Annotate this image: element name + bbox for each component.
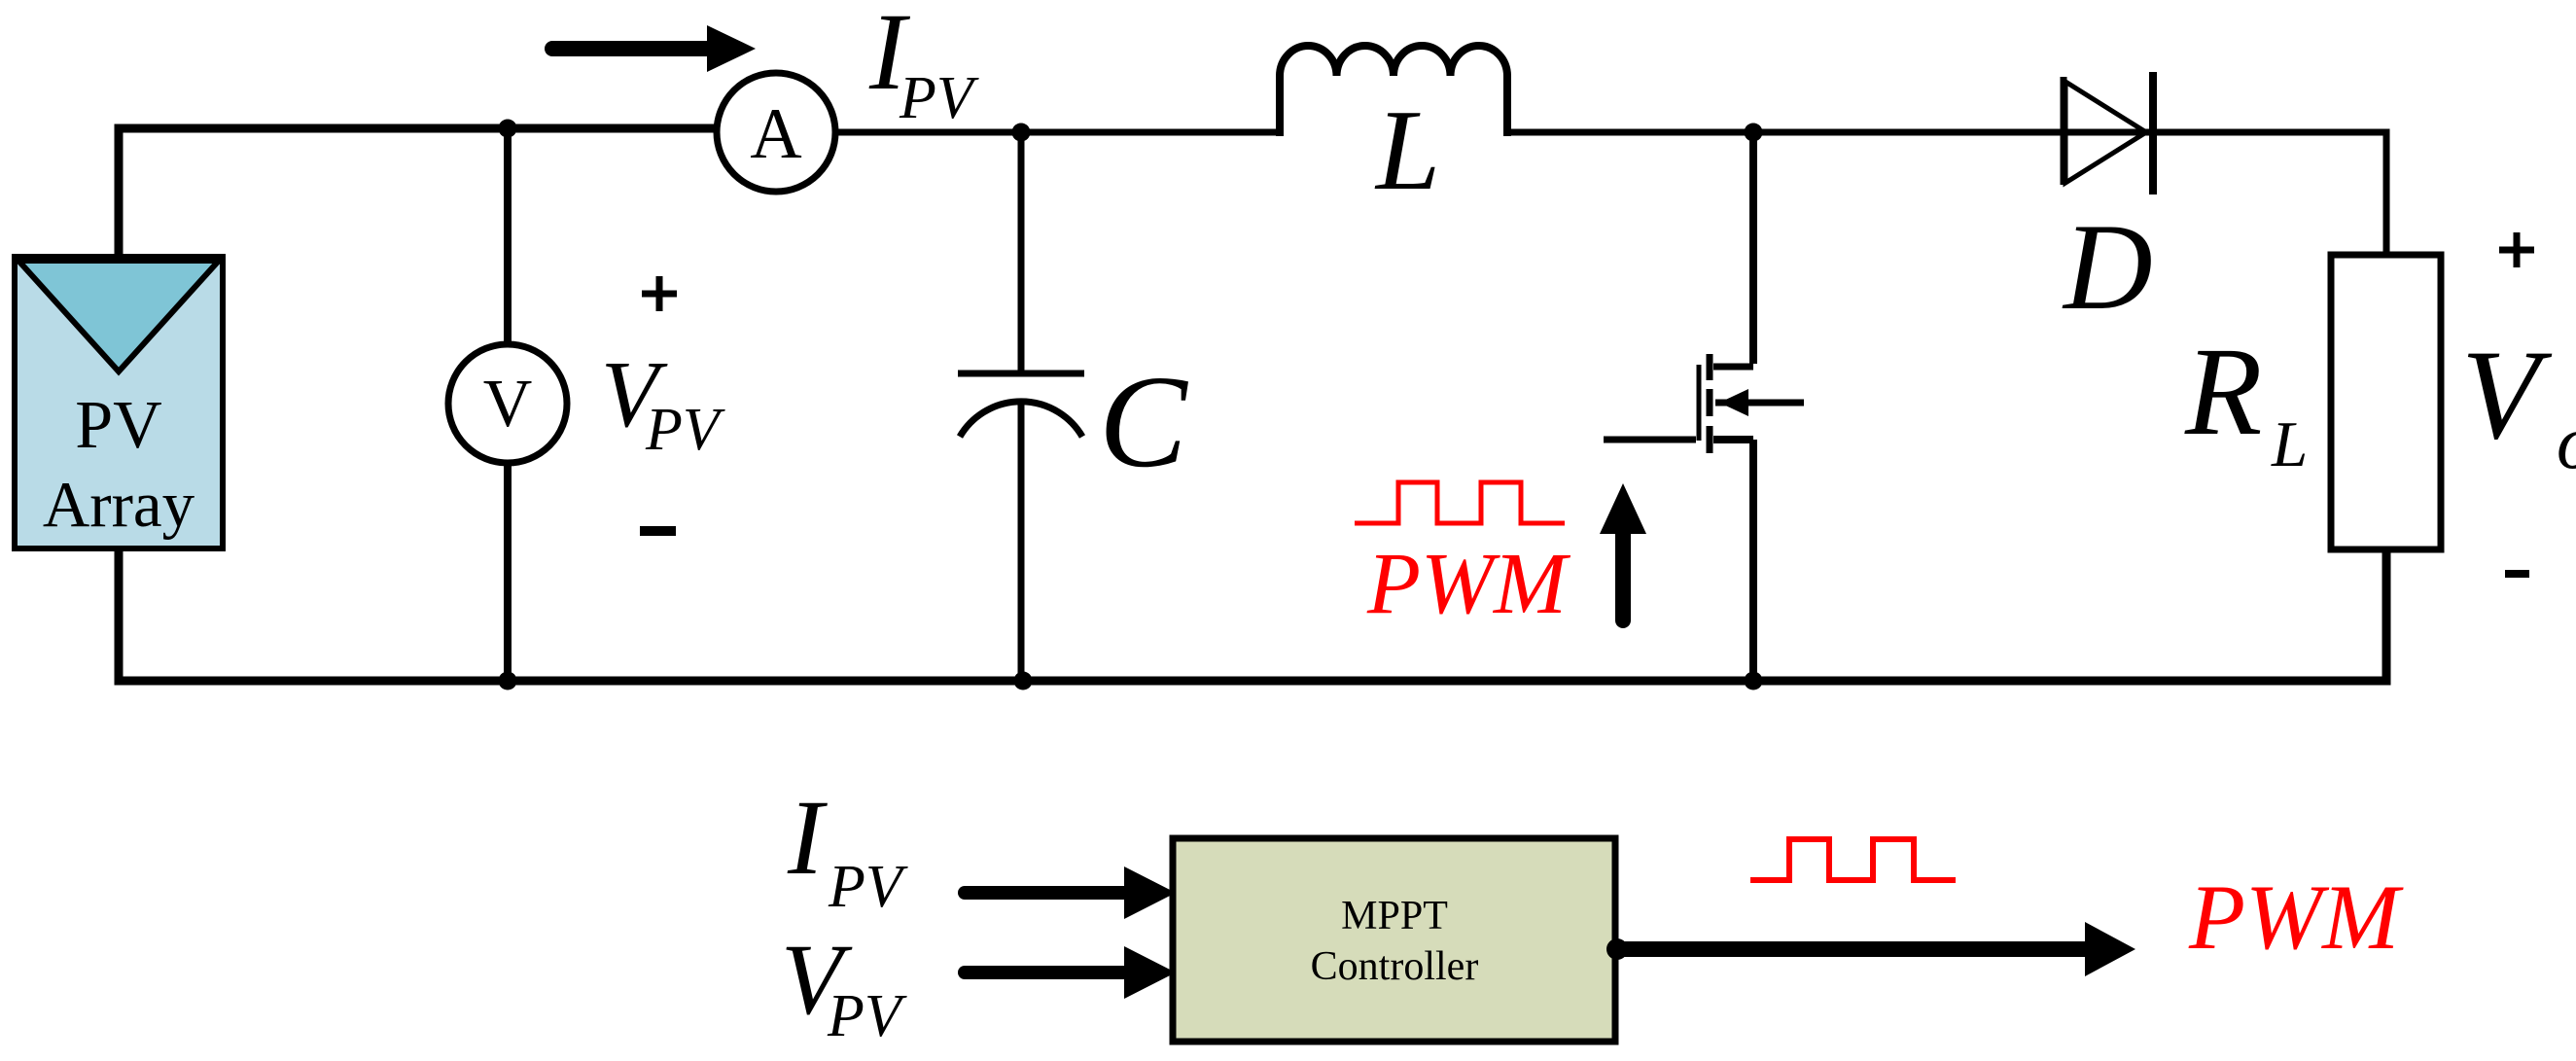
svg-text:PV: PV bbox=[828, 854, 908, 920]
svg-text:D: D bbox=[2062, 199, 2153, 336]
svg-text:L: L bbox=[2271, 408, 2308, 480]
svg-text:o: o bbox=[2557, 400, 2576, 484]
svg-text:MPPT: MPPT bbox=[1341, 894, 1448, 938]
svg-text:C: C bbox=[1099, 349, 1188, 495]
svg-text:R: R bbox=[2184, 322, 2262, 462]
svg-text:Controller: Controller bbox=[1311, 944, 1479, 989]
svg-text:PWM: PWM bbox=[2188, 866, 2404, 969]
svg-text:PV: PV bbox=[75, 388, 161, 463]
svg-text:PV: PV bbox=[645, 397, 725, 463]
svg-text:L: L bbox=[1374, 86, 1440, 214]
svg-text:Array: Array bbox=[43, 469, 195, 541]
svg-text:PV: PV bbox=[899, 65, 979, 131]
svg-text:V: V bbox=[2461, 323, 2553, 466]
svg-text:PWM: PWM bbox=[1366, 536, 1571, 632]
svg-text:PV: PV bbox=[827, 983, 907, 1049]
svg-text:I: I bbox=[787, 778, 828, 897]
svg-text:A: A bbox=[750, 94, 801, 174]
svg-text:V: V bbox=[483, 367, 533, 442]
